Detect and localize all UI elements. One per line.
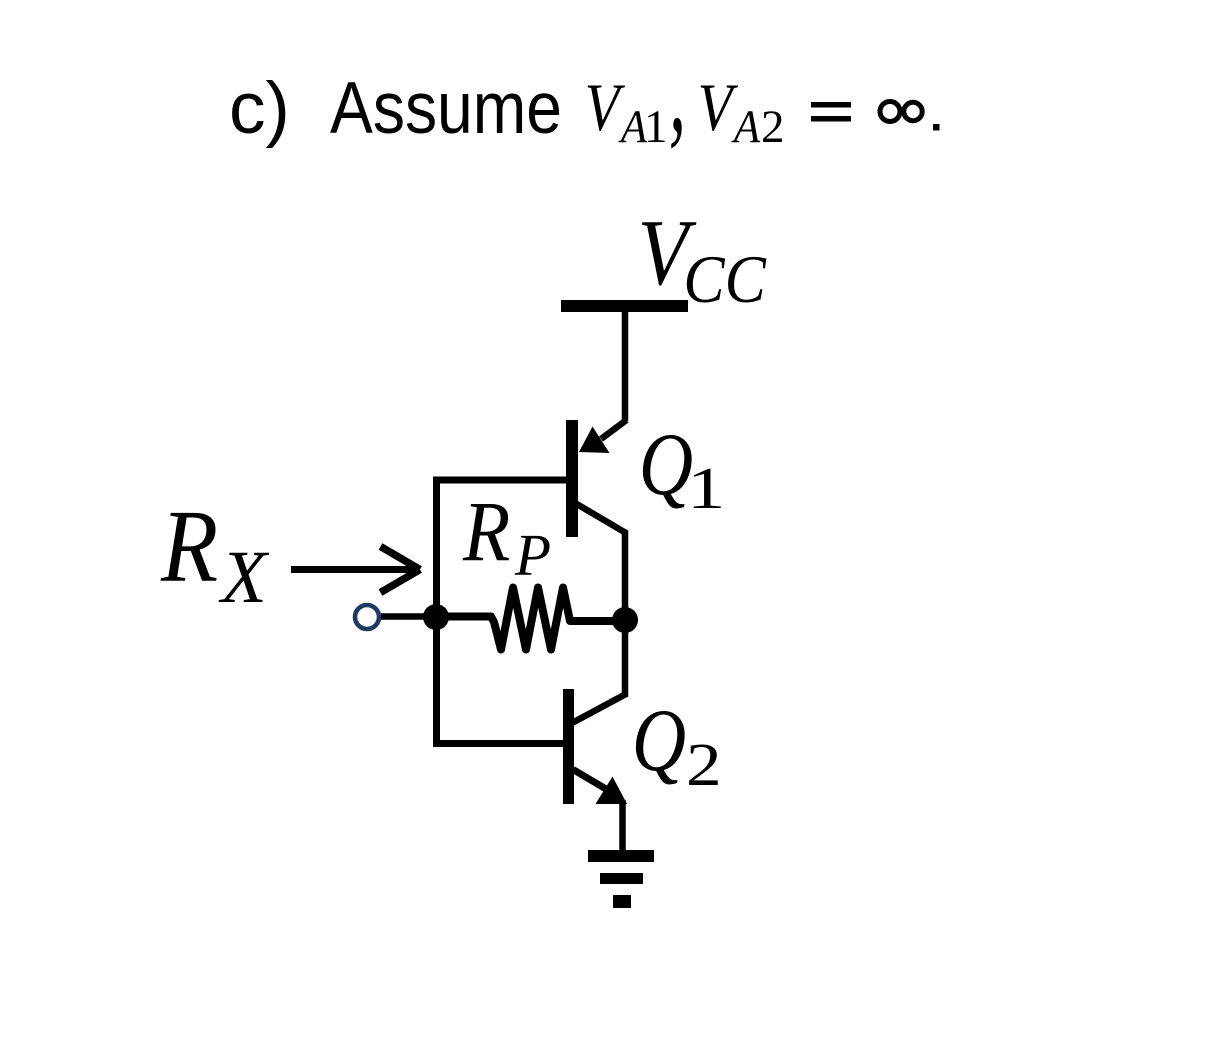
transistor Q2 (NPN): base bar, emitter with outward arrow bbox=[563, 689, 627, 804]
transistor Q1 (PNP): base bar, emitter with arrow into base, collector bbox=[566, 420, 627, 537]
wire Q2 emitter to ground bbox=[619, 800, 626, 856]
svg-text:2: 2 bbox=[686, 732, 722, 799]
wire input terminal to node A bbox=[381, 613, 437, 620]
svg-text:2: 2 bbox=[761, 101, 785, 153]
terminal: input port (open circle) bbox=[355, 605, 379, 629]
svg-text:V: V bbox=[585, 69, 626, 145]
svg-text:CC: CC bbox=[683, 242, 766, 317]
svg-text:X: X bbox=[218, 536, 270, 619]
svg-text:1: 1 bbox=[687, 455, 725, 521]
label RP bbox=[462, 483, 551, 588]
svg-text:c): c) bbox=[229, 68, 290, 149]
resistor RP bbox=[437, 588, 624, 650]
svg-text:R: R bbox=[462, 483, 510, 579]
ground bbox=[588, 850, 654, 908]
label Rx bbox=[160, 490, 270, 619]
svg-text:Assume: Assume bbox=[330, 68, 562, 149]
wire node OUT down to Q2 collector bbox=[572, 620, 626, 723]
node A junction dot bbox=[423, 604, 449, 630]
wire top: node A up and across to Q1 base bbox=[433, 477, 572, 484]
wire Q1 collector down to node OUT bbox=[622, 530, 629, 620]
svg-text:,: , bbox=[669, 24, 686, 155]
node OUT junction dot bbox=[612, 607, 638, 633]
svg-text:Q: Q bbox=[639, 415, 693, 513]
arrow Rx pointer bbox=[291, 547, 420, 593]
svg-text:V: V bbox=[698, 69, 739, 145]
wire Vcc rail to Q1 emitter bbox=[622, 312, 629, 421]
svg-text:Q: Q bbox=[632, 691, 686, 789]
svg-text:R: R bbox=[160, 490, 218, 605]
svg-text:1: 1 bbox=[644, 101, 668, 153]
label Q1 bbox=[639, 415, 726, 521]
power rail Vcc bbox=[561, 300, 688, 312]
svg-text:A: A bbox=[731, 100, 761, 152]
label Vcc bbox=[638, 201, 767, 317]
label Q2 bbox=[632, 691, 722, 799]
title "c) Assume VA1, VA2 = infinity." bbox=[229, 24, 940, 155]
wire Q2 base connection bbox=[433, 740, 568, 747]
wire left vertical: node A branch bbox=[433, 477, 440, 748]
svg-text:P: P bbox=[514, 522, 551, 588]
